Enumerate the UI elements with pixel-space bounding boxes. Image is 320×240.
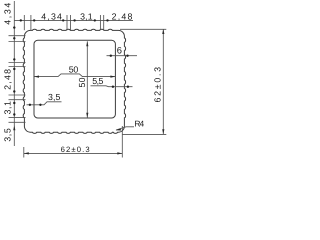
profile outer serrated square bbox=[23, 29, 125, 133]
left chain arrow dots bbox=[13, 26, 15, 28]
svg-text:3,1: 3,1 bbox=[3, 101, 13, 115]
bottom overall width dimension 62±0.3 bbox=[23, 147, 25, 158]
6 dimension (wall incl. serration) bbox=[107, 55, 138, 57]
svg-text:3,1: 3,1 bbox=[80, 11, 93, 21]
svg-text:3,5: 3,5 bbox=[48, 92, 60, 102]
top chain extension lines bbox=[23, 15, 25, 30]
svg-text:50: 50 bbox=[77, 77, 87, 87]
svg-text:R4: R4 bbox=[134, 118, 144, 128]
profile inner hole bbox=[34, 40, 115, 118]
svg-text:4,34: 4,34 bbox=[3, 3, 13, 25]
left chain extension lines bbox=[9, 35, 26, 37]
horizontal 50 dimension (inner width) bbox=[34, 74, 115, 77]
svg-text:6: 6 bbox=[117, 45, 122, 56]
svg-text:5,5: 5,5 bbox=[92, 76, 103, 86]
top serration dimension chain line bbox=[14, 19, 133, 21]
3,5 dimension (left wall feature) bbox=[27, 102, 62, 105]
R4 corner radius leader bbox=[116, 127, 134, 130]
right overall height dimension 62±0.3 bbox=[120, 28, 166, 30]
svg-text:50: 50 bbox=[69, 64, 79, 74]
svg-text:2,48: 2,48 bbox=[3, 69, 13, 90]
vertical 50 dimension (inner height) bbox=[86, 41, 88, 118]
top chain arrow dots bbox=[20, 19, 22, 21]
svg-text:2,48: 2,48 bbox=[112, 12, 133, 22]
left serration dimension chain line bbox=[13, 1, 15, 146]
svg-text:4,34: 4,34 bbox=[41, 12, 62, 22]
5,5 dimension (right wall thickness) bbox=[91, 85, 133, 88]
left 3,5 arrow up bbox=[13, 125, 15, 130]
svg-text:3,5: 3,5 bbox=[3, 128, 13, 142]
